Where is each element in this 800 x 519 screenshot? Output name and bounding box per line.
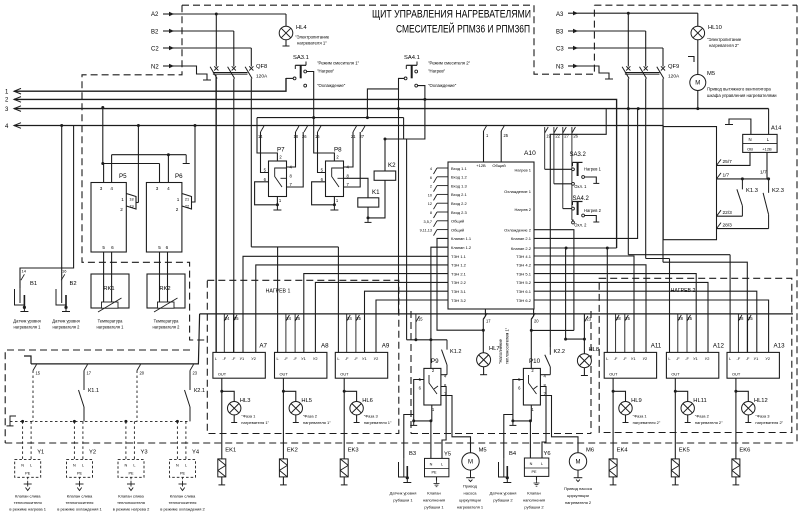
svg-text:PE: PE	[431, 471, 437, 475]
svg-text:ТЭН 4.1: ТЭН 4.1	[516, 254, 532, 259]
svg-text:Нагрев 1: Нагрев 1	[515, 167, 532, 172]
wire A10 out klapan22	[534, 247, 617, 249]
svg-text:18: 18	[129, 198, 133, 202]
svg-text:наполнения: наполнения	[523, 498, 545, 503]
thermistor RK2	[158, 302, 175, 308]
wire Y1 N dashed	[22, 421, 24, 459]
svg-text:-F: -F	[222, 356, 226, 361]
svg-text:Вход 1.1: Вход 1.1	[451, 166, 467, 171]
svg-text:1: 1	[121, 197, 124, 202]
level sensor B3	[399, 462, 408, 477]
wire SA4.1 left contact down	[367, 78, 404, 117]
wire QF9 phase C down	[662, 79, 664, 263]
wire K1 bottom	[367, 207, 369, 218]
svg-text:шкафа управления нагревателями: шкафа управления нагревателями	[707, 93, 777, 98]
svg-text:ТЭН 4.2: ТЭН 4.2	[516, 263, 532, 268]
relay P7 box	[269, 161, 287, 197]
svg-text:21: 21	[351, 134, 356, 139]
wire SA3.1 left contact to bus1	[286, 77, 293, 79]
svg-text:нагревателя 1: нагревателя 1	[457, 505, 484, 510]
wire K2 top	[384, 139, 386, 171]
cabinet outer dashed border top right part	[594, 4, 797, 6]
svg-text:25: 25	[234, 316, 239, 321]
cabinet dashed border left upper	[82, 5, 207, 340]
svg-text:Вход 1.2: Вход 1.2	[451, 175, 467, 180]
svg-text:17: 17	[87, 371, 92, 376]
svg-text:HL10: HL10	[708, 25, 722, 31]
wire feed to L pin A9	[337, 247, 339, 353]
terminal stub near P6	[185, 155, 187, 164]
svg-text:Нагрев 1: Нагрев 1	[584, 167, 602, 172]
svg-text:A11: A11	[651, 343, 662, 350]
svg-text:B1: B1	[30, 281, 37, 287]
svg-text:OUT: OUT	[732, 372, 741, 377]
svg-text:"Фаза 1: "Фаза 1	[633, 414, 648, 419]
lamp HL3	[222, 391, 234, 401]
wire B3 feed	[404, 415, 414, 459]
wire Y4 L dashed	[185, 421, 187, 459]
wire QF8 pole A in	[215, 14, 217, 67]
svg-text:25: 25	[296, 316, 301, 321]
valve Y3 box dashed	[118, 460, 144, 478]
relay P7 contact symbol	[275, 168, 287, 187]
svg-text:16: 16	[62, 269, 67, 274]
svg-text:М5: М5	[707, 71, 715, 77]
address tick 28/3	[717, 223, 722, 229]
svg-text:23: 23	[587, 317, 592, 322]
svg-text:Датчик уровня: Датчик уровня	[13, 319, 40, 324]
wire OUT down A12	[674, 378, 676, 459]
junction A2-QF8	[215, 13, 218, 16]
svg-text:OUT: OUT	[609, 372, 618, 377]
svg-text:М5: М5	[479, 448, 487, 454]
wire B2 feed	[61, 126, 63, 277]
wire k12 row	[407, 339, 447, 341]
wire QF8 phase B down	[233, 79, 235, 353]
svg-text:Клапан: Клапан	[527, 491, 541, 496]
svg-text:"Наполнение: "Наполнение	[498, 338, 503, 364]
SSR module A11	[604, 352, 656, 378]
wire P7 pin4 to tick18	[287, 132, 296, 167]
svg-text:-F: -F	[746, 356, 750, 361]
svg-text:Общий: Общий	[451, 227, 464, 232]
svg-text:нагревателя 2": нагревателя 2"	[709, 43, 739, 48]
svg-text:Нагрев 2: Нагрев 2	[584, 208, 602, 213]
svg-text:нагревателя 2: нагревателя 2	[153, 325, 181, 330]
wire OUT down A11	[612, 378, 614, 459]
svg-text:1/7: 1/7	[723, 173, 730, 179]
svg-text:К1.1: К1.1	[88, 388, 99, 394]
svg-text:У2: У2	[313, 356, 318, 361]
wire SA4.1 drop to bus3 and main row	[398, 89, 400, 314]
earth Y6	[536, 476, 538, 480]
svg-text:5: 5	[102, 245, 105, 250]
svg-text:14: 14	[22, 269, 27, 274]
svg-text:EK6: EK6	[739, 448, 750, 454]
wire OUT down A8	[282, 378, 284, 459]
svg-text:20: 20	[140, 371, 145, 376]
svg-text:N: N	[176, 464, 179, 468]
temperature sensor RK1 box	[91, 274, 129, 308]
svg-text:рубашки 2: рубашки 2	[524, 505, 544, 510]
relay P9 contact symbol	[429, 375, 437, 394]
svg-text:19: 19	[129, 205, 133, 209]
svg-text:"Электропитание: "Электропитание	[295, 35, 330, 40]
wire control row right drop	[403, 118, 405, 139]
svg-text:У1: У1	[754, 356, 759, 361]
svg-text:3: 3	[156, 186, 159, 191]
wire A10 TEN42	[534, 265, 646, 353]
wire A10 TEN52	[534, 282, 708, 352]
svg-text:EK2: EK2	[287, 448, 298, 454]
wire P9 ground row	[414, 420, 431, 422]
terminal tab P6 21 22	[182, 194, 192, 210]
wire A14 OV to 25/7	[717, 152, 751, 165]
svg-text:Клапан слива: Клапан слива	[15, 494, 41, 499]
svg-text:теплоносителя: теплоносителя	[14, 500, 42, 505]
terminal tick 14	[19, 282, 21, 289]
svg-text:ТЭН 6.1: ТЭН 6.1	[516, 289, 532, 294]
wire P8 pin4 to tick21	[344, 132, 354, 167]
wire klapan12 drop	[431, 247, 448, 340]
SSR module A9	[335, 352, 387, 378]
svg-text:Датчик уровня: Датчик уровня	[390, 491, 417, 496]
junction valve row dots	[21, 420, 24, 423]
svg-text:Вход 2.3: Вход 2.3	[451, 210, 467, 215]
svg-text:P8: P8	[334, 147, 342, 154]
wire A10 TEN61	[534, 291, 757, 352]
junction OUT A7	[220, 390, 223, 393]
svg-text:Клапан 1.1: Клапан 1.1	[451, 236, 472, 241]
wire A10 TEN12	[256, 265, 448, 353]
svg-text:нагревателя 2: нагревателя 2	[53, 325, 81, 330]
svg-text:Клапан 2.2: Клапан 2.2	[511, 246, 532, 251]
svg-text:Клапан слива: Клапан слива	[67, 494, 93, 499]
dashed enclosure HEAT1	[207, 280, 398, 433]
ticks 24 25 A7	[223, 314, 225, 353]
bus 1	[14, 78, 286, 91]
svg-text:теплоносителя: теплоносителя	[117, 500, 145, 505]
svg-text:+12В: +12В	[476, 163, 486, 168]
wire B4 feed	[504, 415, 513, 459]
wire SA4.2 heat from tick27	[563, 208, 572, 210]
wire A14 +12V down	[766, 152, 768, 179]
svg-text:22: 22	[185, 205, 189, 209]
junction QF9 phase A bus3	[627, 107, 630, 110]
wire P8 pin8 to K1 coil	[344, 178, 369, 198]
svg-text:Привод насоса: Привод насоса	[564, 486, 593, 491]
wire main row NAGREV	[200, 313, 793, 315]
wire M5 pump feed	[441, 396, 471, 453]
svg-text:A3: A3	[556, 12, 564, 18]
svg-text:K1.3: K1.3	[746, 188, 758, 194]
svg-text:теплоносителем 1": теплоносителем 1"	[505, 327, 510, 364]
svg-text:У1: У1	[631, 356, 636, 361]
svg-text:2: 2	[430, 185, 432, 189]
svg-text:L: L	[30, 464, 32, 468]
terminal N3	[605, 78, 613, 80]
wire tick15 drop dashed	[32, 371, 34, 422]
wire QF9 pole B in	[645, 31, 647, 67]
junction k12 row b	[429, 338, 432, 341]
svg-text:рубашки 1: рубашки 1	[424, 505, 444, 510]
svg-text:25/7: 25/7	[723, 159, 733, 165]
wire A10 TEN21	[304, 274, 448, 353]
svg-text:Привод вытяжного вентилятора: Привод вытяжного вентилятора	[707, 87, 771, 92]
wire SA4.1 cool contact to bus2	[418, 86, 425, 100]
wire A14 L to bus3	[768, 109, 770, 135]
svg-text:ТЭН 2.1: ТЭН 2.1	[451, 271, 467, 276]
circuit breaker QF8	[214, 66, 218, 70]
terminal tick 23 mid	[584, 316, 588, 322]
svg-text:B3: B3	[409, 451, 416, 457]
wire Y2 N dashed	[73, 421, 75, 459]
junction P9 ground row a	[412, 419, 415, 422]
svg-text:Клапан слива: Клапан слива	[170, 494, 196, 499]
wire bus4 to P6 tab	[192, 126, 196, 203]
svg-text:"Режим смесителя 2": "Режим смесителя 2"	[428, 61, 471, 66]
svg-text:ЩИТ УПРАВЛЕНИЯ НАГРЕВАТЕЛЯМИ: ЩИТ УПРАВЛЕНИЯ НАГРЕВАТЕЛЯМИ	[372, 9, 531, 21]
junction SA4.1 bus3	[397, 107, 400, 110]
svg-text:PE: PE	[77, 472, 83, 476]
svg-text:-F: -F	[293, 356, 297, 361]
svg-text:25: 25	[356, 316, 361, 321]
svg-text:A2: A2	[151, 12, 159, 18]
wire HL8 feed row	[566, 338, 585, 340]
wire P9 pin1 down	[431, 405, 433, 421]
wire right routing r3	[663, 262, 747, 352]
address tick 22/3	[717, 210, 722, 216]
svg-text:4: 4	[430, 167, 432, 171]
svg-text:3: 3	[100, 186, 103, 191]
junction OUT A12	[674, 390, 677, 393]
wire Y5 N riser	[430, 421, 432, 459]
svg-text:"Фаза 1: "Фаза 1	[241, 414, 256, 419]
junction P5 pin3	[101, 162, 104, 165]
lamp HL11	[675, 391, 687, 401]
svg-text:-F: -F	[676, 356, 680, 361]
svg-text:"Фаза 2: "Фаза 2	[695, 414, 710, 419]
svg-text:K2.2: K2.2	[554, 349, 566, 355]
svg-text:2: 2	[176, 207, 179, 212]
junction P10 ground row b	[529, 419, 532, 422]
svg-text:10: 10	[428, 193, 432, 197]
wire QF8 phase C down	[250, 79, 252, 247]
wire tick14 to P7 pin5	[261, 132, 269, 173]
module A14	[743, 134, 777, 152]
wire Y3 L dashed	[133, 421, 135, 459]
svg-text:рубашки 1: рубашки 1	[393, 498, 413, 503]
wire QF8 pole C in	[250, 48, 252, 67]
svg-text:Y3: Y3	[141, 450, 148, 456]
wire 28/3 row	[717, 228, 769, 230]
wire HL8 feed drop	[565, 248, 567, 339]
svg-text:У1: У1	[693, 356, 698, 361]
wire M6 pump feed	[540, 396, 578, 453]
svg-text:ТЭН 2.2: ТЭН 2.2	[451, 280, 467, 285]
svg-text:Общий: Общий	[451, 219, 464, 224]
svg-text:EK4: EK4	[617, 448, 629, 454]
relay module P6	[146, 183, 182, 253]
wire P6 pin3 drop	[159, 164, 161, 183]
wire A10 TEN31	[365, 291, 449, 352]
svg-text:в режиме охлаждения 1: в режиме охлаждения 1	[57, 507, 102, 512]
ticks 24 25 A12	[677, 314, 679, 353]
svg-text:18: 18	[294, 134, 299, 139]
wire bus4 to pin4 row	[137, 126, 139, 203]
ground P10	[512, 421, 514, 426]
svg-text:Y1: Y1	[37, 450, 44, 456]
relay module P5	[91, 183, 126, 253]
svg-text:6: 6	[430, 176, 432, 180]
svg-text:Общий: Общий	[492, 163, 505, 168]
vertical aux a	[406, 139, 408, 340]
wire OUT down A7	[221, 378, 223, 459]
svg-text:нагревателя 2": нагревателя 2"	[633, 420, 661, 425]
wire valve common row dotted	[10, 420, 190, 422]
svg-text:120А: 120А	[256, 74, 268, 80]
terminal ticks 21 27	[353, 126, 357, 132]
svg-text:HL5: HL5	[301, 398, 312, 404]
relay P10 box	[523, 368, 540, 405]
relay P8 contact symbol	[332, 168, 344, 187]
wire P5 pin6 to RK1	[111, 252, 113, 274]
junction P6 pin4	[167, 153, 170, 156]
svg-text:OUT: OUT	[280, 372, 289, 377]
svg-text:Температура: Температура	[98, 319, 124, 324]
bus 4	[14, 125, 663, 127]
wire A14 N hook	[729, 119, 751, 134]
wire left thick row stub	[24, 356, 31, 364]
wire P10 ground row	[513, 420, 531, 422]
terminal tick 17 left	[84, 365, 88, 371]
svg-text:6: 6	[111, 245, 114, 250]
svg-text:нагревателя 2": нагревателя 2"	[695, 420, 723, 425]
motor M6 pump	[569, 453, 586, 470]
svg-text:A10: A10	[524, 150, 536, 157]
junction K1.3 top	[741, 177, 744, 180]
svg-text:RK1: RK1	[103, 286, 114, 292]
wire P10 pin5 left	[513, 380, 524, 421]
wire P8 pin2 riser	[314, 118, 335, 161]
junction OUT A13	[734, 390, 737, 393]
svg-text:9,11,13: 9,11,13	[420, 229, 432, 233]
wire Y5 L riser	[441, 387, 446, 459]
svg-text:У2: У2	[705, 356, 710, 361]
wire N3 step	[578, 66, 609, 79]
contact K2.3	[768, 179, 770, 193]
lamp HL7	[482, 330, 484, 353]
bus 3	[14, 108, 769, 110]
svg-text:PE: PE	[180, 472, 186, 476]
A10 input stubs left	[437, 167, 448, 169]
SSR module A7	[213, 352, 265, 378]
valve Y1 box dashed	[15, 460, 41, 478]
svg-text:6: 6	[166, 245, 169, 250]
svg-text:-F: -F	[623, 356, 627, 361]
svg-text:У1: У1	[362, 356, 367, 361]
SSR module A8	[275, 352, 327, 378]
motor M5 fan	[690, 75, 706, 91]
level sensor B1	[19, 281, 21, 303]
lamp HL5	[283, 391, 295, 401]
svg-text:24: 24	[286, 316, 291, 321]
circuit breaker QF9	[626, 66, 630, 70]
contact K1.3	[741, 179, 743, 189]
wire feed to L pin A8	[277, 247, 279, 353]
svg-text:EK1: EK1	[225, 448, 236, 454]
ground P9	[413, 421, 415, 426]
svg-text:У2: У2	[765, 356, 770, 361]
wire Y1 L dashed	[30, 421, 32, 459]
svg-text:ТЭН 5.1: ТЭН 5.1	[516, 271, 532, 276]
svg-text:Y4: Y4	[192, 450, 200, 456]
terminal tab P5 18 19	[126, 194, 136, 210]
svg-text:ТЭН 3.2: ТЭН 3.2	[451, 298, 467, 303]
svg-text:L: L	[541, 462, 543, 466]
svg-text:C2: C2	[151, 47, 159, 53]
svg-text:нагревателя 1": нагревателя 1"	[303, 420, 331, 425]
svg-text:наполнения: наполнения	[423, 498, 445, 503]
svg-text:циркуляции: циркуляции	[459, 498, 481, 503]
wire long lower row	[251, 246, 338, 248]
terminal N2	[203, 79, 211, 81]
svg-text:Охл. 2: Охл. 2	[574, 223, 587, 228]
wire N2 step	[174, 66, 207, 80]
svg-text:B4: B4	[509, 451, 517, 457]
svg-text:ОВ: ОВ	[747, 147, 753, 152]
junction B2 bus4	[60, 124, 63, 127]
svg-text:15: 15	[36, 371, 41, 376]
svg-text:QF9: QF9	[668, 64, 679, 70]
wire K1.2 to P9 pin4	[441, 374, 447, 376]
wire P10 pin1 down	[530, 405, 532, 421]
A10 top pins 19 22 27 26	[544, 127, 546, 169]
wire A10 TEN11	[243, 256, 448, 352]
cabinet dashed border sensor notch	[5, 350, 190, 443]
lamp HL9	[613, 391, 625, 401]
svg-text:Y5: Y5	[444, 452, 451, 458]
svg-text:8: 8	[430, 211, 432, 215]
svg-text:Датчик уровня: Датчик уровня	[52, 319, 79, 324]
svg-text:"Режим смесителя 1": "Режим смесителя 1"	[317, 61, 360, 66]
wire OUT down A13	[735, 378, 737, 459]
junction control row b	[366, 116, 369, 119]
svg-text:-F: -F	[737, 356, 741, 361]
svg-text:28/3: 28/3	[723, 222, 733, 228]
coil K1	[358, 198, 379, 207]
motor M5 pump	[462, 453, 479, 470]
wire HL10 to M5 with jog	[697, 40, 699, 53]
svg-text:Y6: Y6	[544, 451, 551, 457]
svg-text:N: N	[125, 464, 128, 468]
wire A10 out klapan21	[534, 109, 638, 239]
svg-text:Нагрев 2: Нагрев 2	[515, 207, 532, 212]
svg-text:N: N	[530, 462, 533, 466]
wire bus4 down-left to sensors	[20, 126, 74, 289]
svg-text:EK3: EK3	[348, 448, 359, 454]
wire P6 pin4 drop	[167, 155, 169, 183]
svg-text:PE: PE	[25, 472, 31, 476]
svg-text:рубашки 2: рубашки 2	[493, 498, 513, 503]
wire SA3.2 common hook	[585, 177, 597, 183]
svg-text:P10: P10	[529, 358, 541, 365]
svg-text:P5: P5	[119, 173, 127, 180]
wire feed to L pin A11	[606, 248, 608, 352]
wire bus2 branch down to A10 area	[385, 99, 425, 139]
wire control row left riser	[257, 118, 277, 161]
wire RK1 internal pins	[103, 274, 105, 302]
